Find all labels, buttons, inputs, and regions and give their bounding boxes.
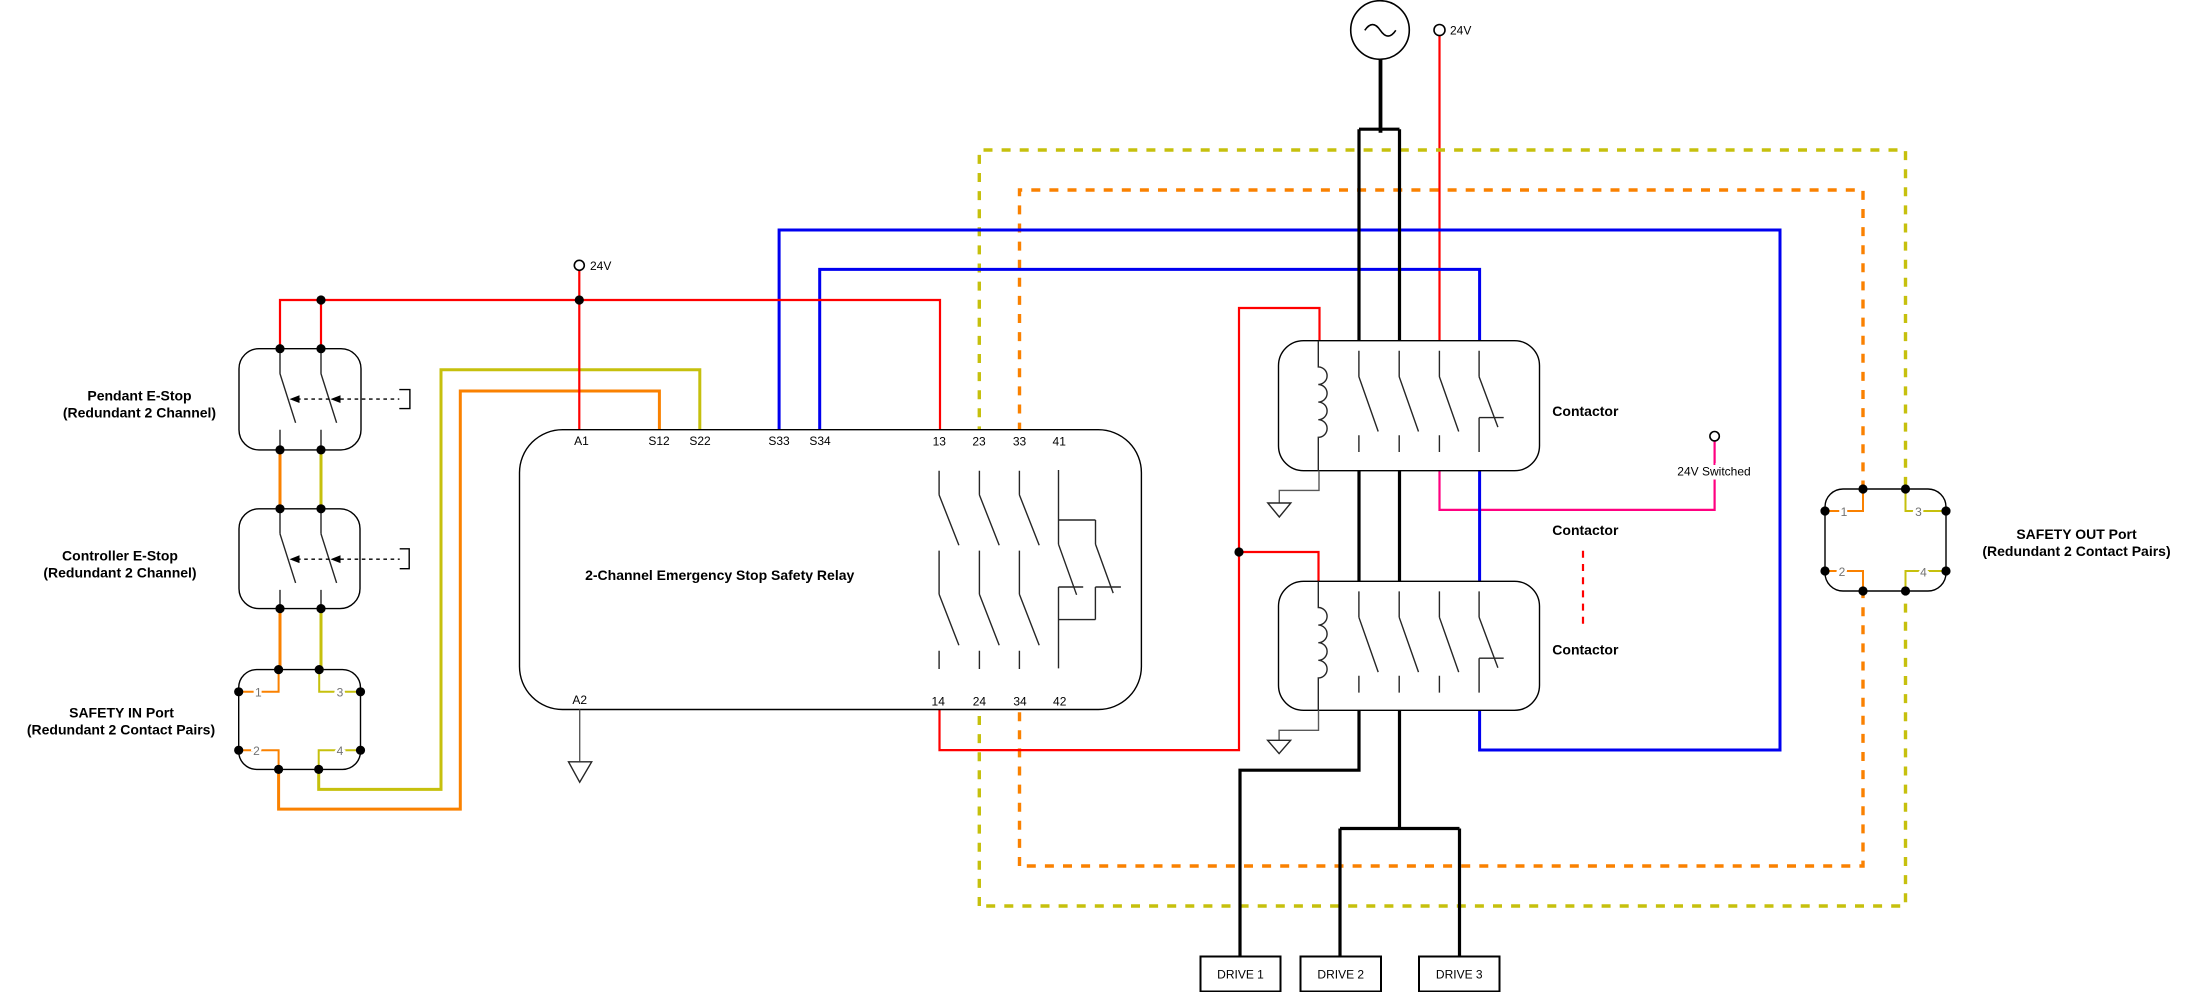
wire: orange channel-1 pendant to controller	[279, 449, 282, 510]
node: pendant terminal dots	[275, 344, 325, 454]
svg-text:Contactor: Contactor	[1552, 641, 1619, 657]
node: 24V terminal above relay A1	[574, 260, 584, 270]
pin 1: SAFETY IN orange	[239, 670, 279, 692]
label: 24V Switched	[1677, 465, 1750, 479]
svg-text:SAFETY IN Port: SAFETY IN Port	[69, 705, 174, 721]
node: 24V supply terminal	[1434, 25, 1445, 36]
svg-text:DRIVE 1: DRIVE 1	[1217, 968, 1264, 982]
node: controller terminal dots	[275, 504, 325, 613]
svg-text:2: 2	[1839, 565, 1846, 579]
svg-text:24: 24	[973, 694, 987, 708]
svg-text:(Redundant 2 Channel): (Redundant 2 Channel)	[43, 565, 196, 581]
svg-text:2-Channel Emergency Stop Safet: 2-Channel Emergency Stop Safety Relay	[585, 567, 854, 583]
svg-text:3: 3	[337, 686, 344, 700]
label: SAFETY OUT Port	[1982, 526, 2170, 559]
load: DRIVE 1 box	[1201, 957, 1281, 992]
pin 2: SAFETY IN orange	[239, 750, 279, 769]
svg-text:(Redundant 2 Contact Pairs): (Redundant 2 Contact Pairs)	[1982, 543, 2170, 559]
svg-text:1: 1	[255, 686, 262, 700]
switch: controller e-stop NC contact channel 1	[280, 509, 296, 609]
contact: contactor K2 NO N pole	[1399, 591, 1418, 692]
connector: SAFETY IN port box	[239, 670, 361, 770]
svg-text:S34: S34	[809, 434, 831, 448]
label: SAFETY IN Port	[27, 705, 215, 738]
wire: mains conductor N through contactors to DRIVE 2 and DRIVE 3	[1340, 129, 1460, 958]
label: relay bottom pin names	[572, 693, 1066, 708]
svg-text:23: 23	[972, 434, 986, 448]
switch: controller e-stop NC contact channel 2	[321, 509, 337, 609]
svg-text:Controller E-Stop: Controller E-Stop	[62, 548, 178, 564]
label: relay title	[585, 567, 854, 583]
switch: pendant e-stop NC contact channel 2	[321, 349, 337, 450]
wire: mains feed from AC source	[1359, 58, 1400, 133]
label: Controller E-Stop	[43, 548, 196, 581]
label: Contactor (K2 upper)	[1552, 522, 1619, 538]
contact: relay NC auxiliary contact pair column 41-42	[1059, 470, 1121, 668]
wire: orange dashed safety loop (relay 33/34 to SAFETY OUT pins 1/2)	[1020, 190, 1864, 866]
svg-text:Contactor: Contactor	[1552, 522, 1619, 538]
label: 24V (top)	[1450, 24, 1471, 38]
node: junction dot red rail at pendant channel 2	[316, 295, 325, 304]
contact: contactor K1 NO L pole	[1359, 351, 1378, 452]
pin 2: SAFETY OUT orange	[1825, 571, 1863, 591]
pin 1: SAFETY OUT orange	[1825, 489, 1863, 511]
svg-text:SAFETY OUT Port: SAFETY OUT Port	[2016, 526, 2137, 542]
pin 3: SAFETY IN yellow	[319, 670, 360, 692]
svg-text:S12: S12	[648, 434, 670, 448]
contact: contactor K1 NC feedback contact	[1479, 351, 1504, 452]
pin 4: SAFETY IN yellow	[319, 750, 361, 769]
node: 24V switched terminal	[1710, 432, 1719, 441]
label: SAFETY IN pin numbers	[253, 686, 344, 758]
load: DRIVE 2 box	[1301, 957, 1382, 992]
pin 3: SAFETY OUT yellow	[1906, 489, 1947, 511]
label: Pendant E-Stop	[63, 388, 216, 421]
wire: red relay pin 14 to contactor coils	[940, 308, 1320, 750]
switch: Controller E-Stop box	[239, 509, 360, 609]
contact: relay output contact pair column 23-24	[979, 471, 999, 669]
svg-text:42: 42	[1053, 694, 1067, 708]
wire: blue feedback loop S33 to contactor NC chain	[779, 230, 1780, 750]
svg-text:S22: S22	[689, 434, 711, 448]
switch: Pendant E-Stop box	[239, 349, 361, 450]
ground: contactor K2 coil return	[1268, 710, 1319, 753]
svg-text:13: 13	[933, 434, 947, 448]
svg-text:(Redundant 2 Channel): (Redundant 2 Channel)	[63, 405, 216, 421]
svg-text:S33: S33	[768, 434, 790, 448]
switch: pendant e-stop NC contact channel 1	[280, 349, 296, 450]
svg-text:2: 2	[253, 744, 260, 758]
svg-text:24V: 24V	[1450, 24, 1471, 38]
label: SAFETY OUT pin numbers	[1839, 505, 1928, 580]
svg-text:3: 3	[1915, 505, 1922, 519]
load: DRIVE 3 box	[1419, 957, 1500, 992]
symbol: controller e-stop mechanical link dashed line with arrows	[290, 549, 410, 569]
coil: contactor K1 coil	[1318, 341, 1327, 471]
node: junction dot red rail at A1	[575, 295, 584, 304]
ground: contactor K1 coil return	[1268, 471, 1319, 517]
wire: yellow channel-2 SAFETY IN pin4 to relay S22	[319, 370, 700, 790]
connector: SAFETY OUT port box	[1825, 489, 1946, 591]
AC source	[1351, 1, 1410, 60]
node: SAFETY IN terminal dots	[234, 665, 365, 774]
wire: red 24V rail to e-stops, A1 and pin 13	[280, 270, 940, 434]
contactor K2 body	[1279, 581, 1540, 710]
label: 24V (relay supply)	[590, 259, 611, 273]
svg-text:(Redundant 2 Contact Pairs): (Redundant 2 Contact Pairs)	[27, 722, 215, 738]
label: Contactor (K1)	[1552, 403, 1619, 419]
contact: contactor K1 NO N pole	[1399, 351, 1418, 452]
svg-text:4: 4	[337, 744, 344, 758]
svg-text:41: 41	[1053, 434, 1067, 448]
contact: relay output contact pair column 33-34	[1019, 471, 1039, 669]
node: SAFETY OUT terminal dots	[1820, 484, 1950, 595]
svg-text:33: 33	[1013, 434, 1027, 448]
wire: yellow channel-2 controller to SAFETY IN	[320, 608, 323, 671]
wire: orange channel-1 controller to SAFETY IN	[279, 608, 282, 671]
wire: pink 24V switched from contactor 1	[1440, 442, 1715, 510]
svg-text:4: 4	[1920, 565, 1927, 579]
wire: mains conductor L through contactors to DRIVE 1	[1240, 129, 1359, 958]
svg-text:DRIVE 2: DRIVE 2	[1317, 968, 1364, 982]
contact: contactor K2 NC feedback contact	[1479, 591, 1504, 692]
svg-text:24V: 24V	[590, 259, 611, 273]
pin 4: SAFETY OUT yellow	[1906, 571, 1947, 591]
contact: contactor K2 NO L pole	[1359, 591, 1378, 692]
label: relay top pin names	[574, 434, 1066, 449]
svg-text:DRIVE 3: DRIVE 3	[1436, 968, 1483, 982]
wire: red 24V supply to contactor 1 contact	[1438, 36, 1440, 346]
label: Contactor (K2 lower)	[1552, 641, 1619, 657]
contact: relay output contact pair column 13-14	[939, 471, 959, 669]
node: junction dot red coil branch	[1234, 547, 1243, 556]
symbol: pendant e-stop mechanical link dashed line with arrows	[290, 390, 410, 409]
svg-text:34: 34	[1013, 694, 1027, 708]
svg-text:A1: A1	[574, 434, 589, 448]
wire: yellow dashed safety loop (relay 23/24 to SAFETY OUT pins 3/4)	[979, 150, 1905, 906]
svg-text:A2: A2	[572, 693, 587, 707]
wire: yellow channel-2 pendant to controller	[320, 449, 323, 510]
coil: contactor K2 coil	[1318, 581, 1327, 710]
contact: contactor K2 NO 24V pole	[1439, 591, 1458, 692]
contactor K1 body	[1279, 341, 1540, 471]
wire: red dashed mechanical link between contactors	[1582, 551, 1584, 630]
svg-text:1: 1	[1841, 505, 1848, 519]
wire: orange channel-1 SAFETY IN pin2 to relay S12	[279, 391, 660, 809]
svg-text:14: 14	[932, 694, 946, 708]
svg-text:24V Switched: 24V Switched	[1677, 465, 1750, 479]
svg-text:Contactor: Contactor	[1552, 403, 1619, 419]
contact: contactor K1 NO 24V pole	[1439, 351, 1458, 452]
svg-text:Pendant E-Stop: Pendant E-Stop	[87, 388, 191, 404]
relay: 2-channel emergency stop safety relay body	[520, 430, 1142, 710]
ground: relay A2	[569, 710, 592, 783]
